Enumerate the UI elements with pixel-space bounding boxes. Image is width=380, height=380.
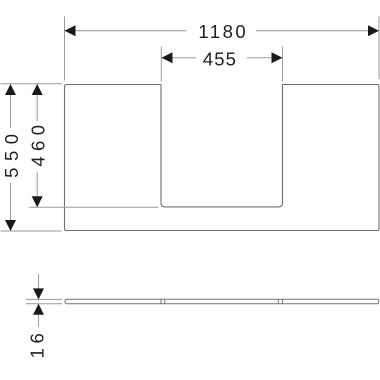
- label 1180: [198, 21, 248, 42]
- arrow 16 down: [33, 288, 44, 299]
- arrow 455 right: [272, 52, 283, 63]
- dimension lines: [11, 31, 380, 327]
- extension bottom-left horizontal: [1, 230, 62, 232]
- arrow 550 bottom: [5, 220, 16, 231]
- extension 16 bottom: [26, 303, 62, 305]
- label 455: [203, 49, 237, 70]
- svg-text:460: 460: [27, 120, 48, 167]
- dim line 550: [10, 85, 12, 129]
- arrow 1180 right: [368, 25, 379, 36]
- svg-text:1180: 1180: [198, 21, 248, 42]
- arrow 460 top: [32, 84, 43, 95]
- extension notch bottom horizontal: [29, 206, 159, 208]
- label 460: [27, 120, 48, 167]
- dim line 460: [36, 85, 38, 122]
- arrow 550 top: [5, 84, 16, 95]
- arrowheads: [5, 25, 379, 315]
- slab tick right pair: [277, 299, 279, 304]
- main outline: console plate top view with U-notch: [65, 85, 380, 231]
- dim line 455: [162, 57, 197, 59]
- label 16: [27, 329, 48, 359]
- side view slab: [65, 299, 379, 304]
- arrow 460 bottom: [32, 196, 43, 207]
- extension 1180 right: [378, 17, 380, 80]
- extension 1180 left: [64, 17, 66, 81]
- slab tick left pair: [160, 299, 162, 304]
- dim line 1180: [65, 30, 187, 32]
- arrow 16 up: [33, 304, 44, 315]
- dim line 16: [38, 274, 40, 299]
- svg-text:16: 16: [27, 329, 48, 359]
- arrow 455 left: [162, 52, 173, 63]
- svg-text:550: 550: [1, 127, 22, 177]
- extension 16 top: [26, 298, 62, 300]
- arrow 1180 left: [65, 25, 76, 36]
- extension 455 right: [282, 47, 284, 82]
- extension top-left horizontal: [1, 83, 63, 85]
- svg-text:455: 455: [203, 49, 237, 70]
- extension 455 left: [160, 47, 162, 82]
- label 550: [1, 127, 22, 177]
- extension lines: [1, 17, 380, 304]
